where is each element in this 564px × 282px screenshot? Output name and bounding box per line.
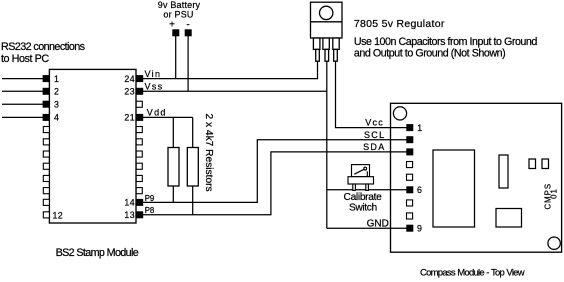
svg-text:21: 21 bbox=[124, 113, 135, 123]
svg-text:SDA: SDA bbox=[363, 142, 385, 152]
svg-text:+: + bbox=[169, 19, 175, 30]
svg-text:01: 01 bbox=[550, 188, 559, 199]
svg-text:RS232 connections: RS232 connections bbox=[1, 41, 86, 53]
svg-text:Vcc: Vcc bbox=[365, 118, 384, 128]
svg-text:Vin: Vin bbox=[145, 69, 162, 79]
svg-text:Vdd: Vdd bbox=[147, 108, 167, 118]
svg-text:GND: GND bbox=[367, 219, 389, 230]
svg-text:Compass Module - Top View: Compass Module - Top View bbox=[420, 268, 525, 279]
svg-text:Use 100n Capacitors from Input: Use 100n Capacitors from Input to Ground bbox=[354, 36, 538, 48]
svg-text:9v Battery: 9v Battery bbox=[158, 0, 201, 10]
svg-text:23: 23 bbox=[124, 87, 135, 97]
svg-text:3: 3 bbox=[54, 99, 59, 109]
svg-text:2: 2 bbox=[54, 87, 59, 97]
svg-text:7805 5v Regulator: 7805 5v Regulator bbox=[354, 18, 445, 30]
svg-text:2 x 4k7 Resistors: 2 x 4k7 Resistors bbox=[203, 114, 214, 192]
svg-text:and Output to Ground (Not Show: and Output to Ground (Not Shown) bbox=[354, 47, 505, 59]
svg-text:-: - bbox=[186, 19, 189, 30]
svg-text:P8: P8 bbox=[145, 206, 155, 215]
svg-text:1: 1 bbox=[54, 74, 59, 84]
svg-text:SCL: SCL bbox=[364, 130, 385, 140]
svg-text:9: 9 bbox=[417, 223, 422, 233]
svg-text:1: 1 bbox=[417, 123, 422, 133]
svg-text:BS2 Stamp Module: BS2 Stamp Module bbox=[56, 247, 139, 259]
svg-text:or PSU: or PSU bbox=[163, 10, 193, 20]
svg-text:6: 6 bbox=[417, 185, 422, 195]
svg-text:12: 12 bbox=[53, 210, 64, 220]
svg-text:13: 13 bbox=[124, 210, 135, 220]
svg-text:24: 24 bbox=[124, 74, 135, 84]
svg-text:P9: P9 bbox=[145, 194, 155, 203]
svg-text:Vss: Vss bbox=[145, 82, 164, 92]
svg-text:14: 14 bbox=[124, 198, 135, 208]
svg-text:to Host PC: to Host PC bbox=[1, 53, 49, 65]
svg-text:Calibrate: Calibrate bbox=[344, 192, 383, 203]
svg-text:4: 4 bbox=[54, 113, 59, 123]
svg-text:Switch: Switch bbox=[349, 202, 377, 213]
